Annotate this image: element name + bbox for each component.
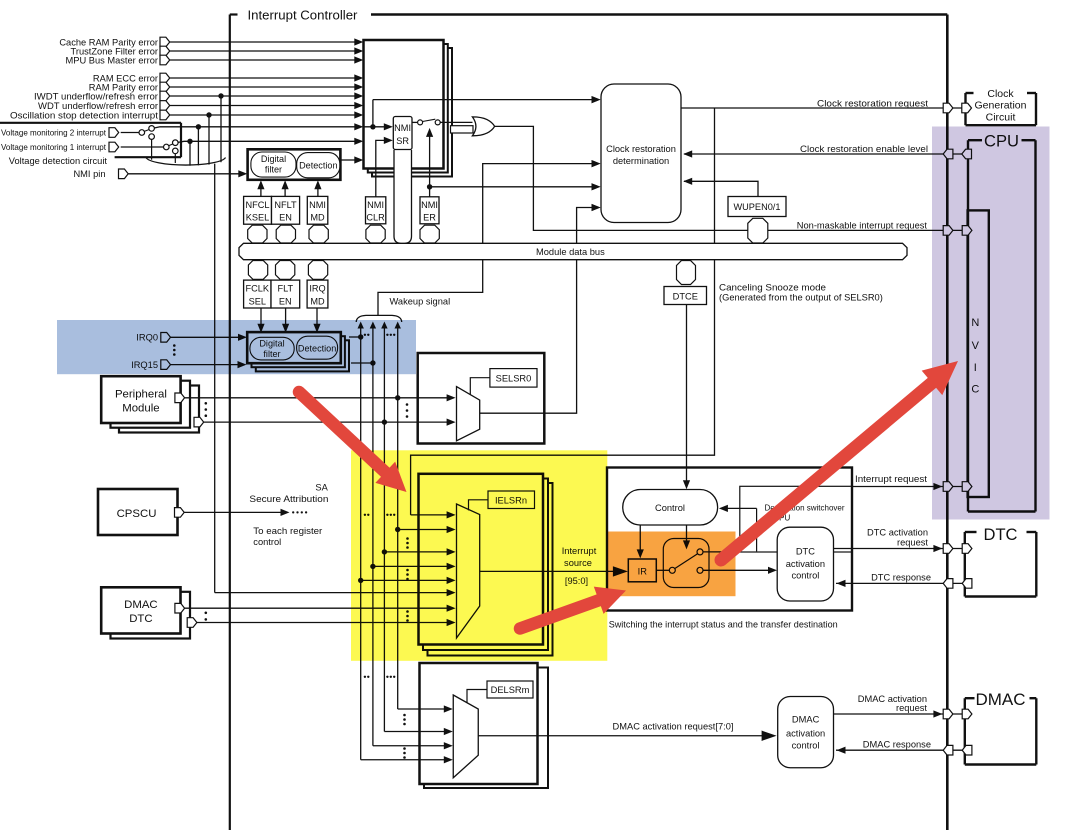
svg-text:Interrupt Controller: Interrupt Controller — [248, 7, 359, 22]
NMI SR pipe to bus — [394, 150, 412, 243]
svg-text:Wakeup signal: Wakeup signal — [390, 296, 451, 306]
pentagon pair clock restoration enable level — [943, 149, 953, 159]
svg-text:NMI: NMI — [394, 123, 411, 133]
svg-text:Non-maskable interrupt request: Non-maskable interrupt request — [797, 221, 928, 231]
wire NMIMD to detection — [317, 186, 319, 197]
wire DELSRm register connector — [467, 690, 487, 703]
OR gate — [472, 117, 494, 136]
svg-text:request: request — [896, 703, 927, 713]
DELSRm mux — [453, 695, 478, 778]
register IR — [628, 559, 656, 582]
DTC activation control box — [777, 527, 833, 601]
wire DMAC DTC line 1 — [185, 607, 300, 609]
wire IRQ filter output top — [349, 336, 361, 338]
bus connector hexagon NMI ER — [420, 225, 439, 243]
register DELSRm — [487, 681, 533, 698]
svg-text:Voltage detection circuit: Voltage detection circuit — [9, 156, 108, 166]
wire IELSRn mux input 6 (NMI collector) — [300, 592, 448, 594]
svg-text:DELSRm: DELSRm — [491, 685, 530, 695]
svg-text:control: control — [792, 741, 820, 751]
wire DMAC response — [836, 749, 965, 751]
wire destination switchover to control — [725, 507, 757, 509]
DELSRm stack layer 2 — [424, 668, 548, 789]
svg-text:DMAC: DMAC — [124, 599, 158, 611]
svg-text:Module: Module — [122, 402, 159, 414]
wire IELSRn mux input 3 — [384, 551, 448, 553]
svg-text:Clock restoration: Clock restoration — [606, 144, 676, 154]
wakeup vertical line 3 — [383, 326, 385, 732]
svg-text:Generation: Generation — [975, 100, 1027, 112]
wire DMAC DTC line 2 — [197, 622, 300, 624]
svg-text:DTC: DTC — [129, 613, 152, 625]
register DTCE — [664, 287, 707, 305]
wire vm2 row up to clock restoration — [372, 100, 374, 127]
svg-text:KSEL: KSEL — [246, 212, 270, 222]
switch lever — [675, 554, 698, 569]
wire wakeup-signal to clock restoration determination — [378, 164, 597, 316]
wire NFCLKSEL to filter — [260, 186, 262, 197]
bus connector hexagon NFLTEN — [276, 225, 295, 243]
DMAC DTC output pentagon 2 — [187, 618, 197, 628]
clock restoration determination input arrows — [592, 96, 601, 103]
NMI status box stack layer 3 — [372, 48, 452, 177]
junction dot oscillation row — [206, 112, 211, 117]
svg-text:CLR: CLR — [366, 212, 385, 222]
NMI status box — [364, 40, 444, 169]
SELSR0 mux — [457, 387, 480, 441]
wire control to switch — [686, 525, 688, 544]
switch upper contact — [697, 549, 703, 555]
bus connector hexagon NMIMD — [309, 225, 328, 243]
wire FLTEN to IRQ filter — [285, 308, 287, 328]
wire interrupt source output — [480, 570, 614, 572]
svg-text:FLT: FLT — [277, 284, 293, 294]
peripheral module vertical ellipsis — [205, 402, 208, 405]
svg-text:MD: MD — [310, 212, 325, 222]
svg-text:Module data bus: Module data bus — [536, 247, 605, 257]
register NMI CLR — [366, 197, 386, 224]
svg-text:(Generated from the output of: (Generated from the output of SELSR0) — [719, 293, 883, 303]
wire IELSRn mux input 7 (DMAC DTC 1) — [300, 607, 448, 609]
svg-text:IWDT underflow/refresh error: IWDT underflow/refresh error — [34, 91, 158, 101]
wire voltage monitoring 1 to NMI box — [178, 141, 355, 142]
detection stadium (NMI) — [297, 153, 340, 178]
detection stadium (IRQ) — [297, 336, 338, 359]
svg-text:WDT underflow/refresh error: WDT underflow/refresh error — [38, 101, 158, 111]
clock generation circuit box — [966, 92, 974, 94]
svg-text:NMI: NMI — [421, 200, 438, 210]
highlight overlays (blue IRQ, yellow IELSR, orange IR, purple CPU) — [57, 127, 1050, 661]
IELSRn stack layer 3 — [428, 483, 553, 656]
IRQ digital filter stack layer 3 — [256, 340, 349, 371]
svg-text:ER: ER — [423, 212, 436, 222]
svg-text:control: control — [253, 537, 281, 547]
DELSRm input ellipses — [403, 714, 406, 717]
clock restoration determination box — [601, 84, 681, 223]
wire peripheral module line 2 — [204, 421, 448, 423]
register FCLKSEL — [244, 280, 271, 308]
DMAC activation control box — [778, 697, 834, 768]
horizontal ellipses between wakeup lines — [364, 334, 366, 336]
svg-text:Secure Attribution: Secure Attribution — [249, 494, 328, 504]
svg-text:control: control — [791, 571, 819, 581]
wire NMI ER up to switch — [429, 133, 431, 197]
svg-text:FCLK: FCLK — [246, 284, 270, 294]
svg-text:DMAC activation request[7:0]: DMAC activation request[7:0] — [613, 721, 734, 731]
switch voltage monitoring 2 — [139, 130, 145, 136]
pentagon pair DTC activation request — [943, 544, 953, 554]
wire SELSR0 register connector — [470, 378, 490, 395]
wire IR to switch — [656, 569, 669, 571]
digital filter stadium (NMI) — [251, 152, 296, 177]
register WUPEN0/1 — [728, 197, 786, 217]
svg-text:DMAC: DMAC — [976, 690, 1026, 709]
peripheral module output pentagon 2 — [194, 417, 204, 427]
register NMI SR — [393, 117, 412, 150]
wakeup vertical line 1 — [360, 326, 362, 760]
red arrow 3 (to NVIC) — [721, 382, 933, 560]
control box — [623, 490, 718, 526]
IRQ digital filter box — [247, 332, 341, 363]
wire CPSCU secure attribution — [184, 511, 281, 513]
DMAC DTC vertical ellipsis — [205, 612, 208, 615]
wire switch to OR gate — [440, 121, 472, 123]
peripheral module output pentagon 1 — [175, 393, 185, 403]
svg-text:NMI pin: NMI pin — [73, 169, 105, 179]
wakeup vertical line 2 — [372, 326, 374, 746]
svg-text:activation: activation — [786, 729, 825, 739]
wire control to IR — [639, 525, 641, 553]
svg-text:Clock restoration request: Clock restoration request — [817, 99, 928, 109]
peripheral module box — [101, 376, 180, 423]
wire DTCE to control — [686, 305, 688, 485]
svg-text:activation: activation — [786, 559, 825, 569]
register NFCLKSEL — [244, 196, 272, 224]
voltage detection circuit box — [0, 122, 181, 124]
wire interrupt request — [852, 486, 968, 488]
svg-text:EN: EN — [279, 212, 292, 222]
bus connector hexagon FLTEN — [276, 261, 295, 280]
DELSRm box — [420, 663, 538, 784]
CPSCU output pentagon — [175, 508, 185, 518]
svg-text:NMI: NMI — [309, 200, 326, 210]
digital filter stadium (IRQ) — [250, 337, 294, 360]
svg-text:Peripheral: Peripheral — [115, 388, 167, 400]
switch after NMI SR — [412, 121, 417, 123]
svg-text:WUPEN0/1: WUPEN0/1 — [734, 202, 781, 212]
svg-text:MD: MD — [310, 296, 325, 306]
pentagon pair DMAC response — [943, 745, 953, 755]
switch common contact — [669, 567, 675, 573]
wire clock restoration request branch down to IELSRn mux top input — [411, 108, 715, 515]
svg-text:Circuit: Circuit — [986, 112, 1016, 124]
wire OR output / non-maskable interrupt request — [495, 126, 968, 230]
wire NMI ER row to clock restoration — [430, 186, 597, 188]
wire WUPEN to clock restoration — [684, 181, 758, 196]
interrupt controller frame top line — [371, 13, 947, 16]
wire IELSRn mux input 5 — [361, 579, 448, 581]
svg-text:DTC response: DTC response — [871, 572, 931, 582]
svg-text:DMAC response: DMAC response — [863, 739, 931, 749]
wire IELSRn mux input 2 — [398, 529, 448, 531]
IELSRn input ellipses — [406, 537, 409, 540]
svg-text:NFLT: NFLT — [274, 200, 297, 210]
wire NFLTEN to filter — [284, 186, 286, 197]
svg-text:To each register: To each register — [253, 526, 322, 536]
svg-text:Clock: Clock — [987, 88, 1014, 100]
interrupt controller frame right edge — [946, 15, 949, 830]
wire IELSRn register connector — [469, 500, 489, 511]
interrupt controller frame left edge — [229, 15, 231, 830]
register NMI ER — [420, 197, 439, 224]
wire IRQ filter output bottom — [351, 362, 373, 364]
bus connector hexagon NFCLKSEL — [248, 225, 267, 243]
NMI sources collector arc — [146, 158, 226, 166]
transfer destination switch box — [663, 539, 709, 588]
NMI status box stack layer 2 — [368, 44, 448, 173]
svg-text:Clock restoration enable level: Clock restoration enable level — [800, 144, 928, 154]
pentagon pair interrupt request — [943, 482, 953, 492]
NMI digital filter box — [248, 149, 341, 180]
svg-text:CPSCU: CPSCU — [117, 508, 157, 520]
wire FCLKSEL to IRQ filter — [260, 308, 262, 328]
bus connector hexagon FCLKSEL — [248, 261, 267, 280]
thick flag bundle connector to OR gate — [451, 126, 474, 133]
svg-text:Switching the interrupt status: Switching the interrupt status and the t… — [609, 619, 838, 629]
register NMIMD — [307, 196, 328, 224]
svg-text:SELSR0: SELSR0 — [496, 374, 532, 384]
bus connector hexagon IRQMD — [308, 261, 327, 280]
bus connector hexagon WUPEN — [748, 218, 768, 243]
svg-text:EN: EN — [279, 296, 292, 306]
svg-text:Detection: Detection — [299, 160, 337, 170]
pentagon pair DTC response — [943, 579, 953, 589]
red arrow 1 (to IELSRn) — [299, 392, 387, 474]
DMAC DTC stack layer 2 — [111, 592, 191, 639]
svg-text:NMI: NMI — [367, 200, 384, 210]
red arrow 2 (to IR) — [520, 600, 601, 629]
register NFLTEN — [272, 196, 300, 224]
wire DMAC activation request[7:0] — [478, 735, 762, 737]
wakeup brace — [356, 315, 402, 322]
wire vm2 row inside box to NMI SR — [364, 126, 389, 128]
wire IELSRn mux input 8 (DMAC DTC 2) — [300, 622, 448, 624]
wire DTC response — [836, 582, 965, 584]
svg-text:Control: Control — [655, 503, 685, 513]
svg-text:SEL: SEL — [249, 296, 266, 306]
wire switch upper to destination rect — [703, 551, 740, 553]
destination switchover rect — [740, 486, 852, 552]
wire DTC activation request — [834, 548, 965, 550]
svg-text:DMAC: DMAC — [792, 715, 820, 725]
DMAC DTC box — [101, 587, 180, 633]
module data bus — [239, 243, 907, 259]
svg-text:Interrupt request: Interrupt request — [855, 474, 927, 484]
wire collector output down-right to IELSRn mux — [214, 164, 216, 593]
IELSRn box — [419, 474, 544, 645]
SELSR0 input ellipsis — [406, 403, 409, 406]
wire switch lower to DTC activation control — [703, 569, 768, 571]
junction dot IWDT row — [218, 93, 223, 98]
svg-text:Voltage monitoring 2 interrupt: Voltage monitoring 2 interrupt — [1, 128, 107, 138]
peripheral module stack layer 3 — [119, 386, 199, 433]
SELSR0 outer box — [418, 353, 545, 444]
wire IELSRn mux input 4 — [373, 565, 448, 567]
register SELSR0 — [490, 369, 537, 388]
peripheral module stack layer 2 — [111, 381, 191, 428]
wire voltage monitoring 2 to NMI box — [154, 127, 355, 128]
IRQ digital filter stack layer 2 — [252, 336, 345, 367]
wire DMAC activation request — [834, 713, 965, 715]
svg-text:Voltage monitoring 1 interrupt: Voltage monitoring 1 interrupt — [1, 142, 107, 152]
switch lower contact — [697, 567, 703, 573]
register IRQMD — [307, 280, 328, 308]
pentagon pair non-maskable interrupt request — [943, 226, 953, 236]
svg-text:request: request — [897, 537, 928, 547]
IELSRn mux — [457, 504, 480, 638]
wire IELSRn mux input 1 — [411, 514, 448, 516]
svg-text:DTC activation: DTC activation — [867, 527, 928, 537]
switch voltage monitoring 1 — [164, 144, 170, 150]
CPSCU box — [98, 489, 178, 535]
CPU box — [968, 139, 982, 141]
svg-text:DTC: DTC — [796, 547, 815, 557]
bus connector hexagon NMI CLR — [366, 225, 385, 243]
svg-text:DTC: DTC — [984, 525, 1018, 544]
register IELSRn — [488, 491, 535, 509]
IRQ vertical ellipsis — [173, 344, 176, 347]
wakeup vertical line 4 — [397, 326, 399, 710]
DTC box — [965, 531, 977, 533]
svg-text:IRQ: IRQ — [309, 284, 325, 294]
NVIC box — [968, 210, 989, 497]
wire peripheral module line 1 — [185, 397, 448, 399]
wire detection output to NMI box — [340, 159, 355, 161]
pentagon pair DMAC activation request — [943, 709, 953, 719]
svg-text:filter: filter — [265, 165, 282, 175]
svg-text:Oscillation stop detection int: Oscillation stop detection interrupt — [10, 110, 159, 120]
svg-text:determination: determination — [613, 156, 669, 166]
IELSRn stack layer 2 — [423, 479, 548, 651]
svg-text:Canceling Snooze mode: Canceling Snooze mode — [719, 283, 826, 293]
svg-text:MPU Bus Master error: MPU Bus Master error — [66, 55, 158, 65]
clock restoration request line — [681, 107, 966, 109]
DMAC DTC output pentagon 1 — [175, 603, 185, 613]
svg-text:SR: SR — [396, 136, 409, 146]
wire IRQMD to IRQ detection — [316, 308, 318, 328]
DMAC box — [965, 697, 975, 699]
svg-text:NFCL: NFCL — [246, 200, 270, 210]
wire SELSR0 output to clock restoration determination (canceling snooze) — [480, 208, 597, 414]
clock restoration enable level line — [684, 153, 966, 155]
register FLTEN — [271, 280, 300, 308]
bus connector hexagon DTCE — [677, 261, 696, 285]
switching box — [607, 468, 852, 611]
pentagon pair clock restoration request — [943, 103, 953, 113]
wire NMI CLR to NMI SR — [376, 140, 388, 196]
svg-text:Digital: Digital — [261, 154, 286, 164]
svg-text:DTCE: DTCE — [673, 291, 698, 301]
svg-text:SA: SA — [315, 483, 328, 493]
